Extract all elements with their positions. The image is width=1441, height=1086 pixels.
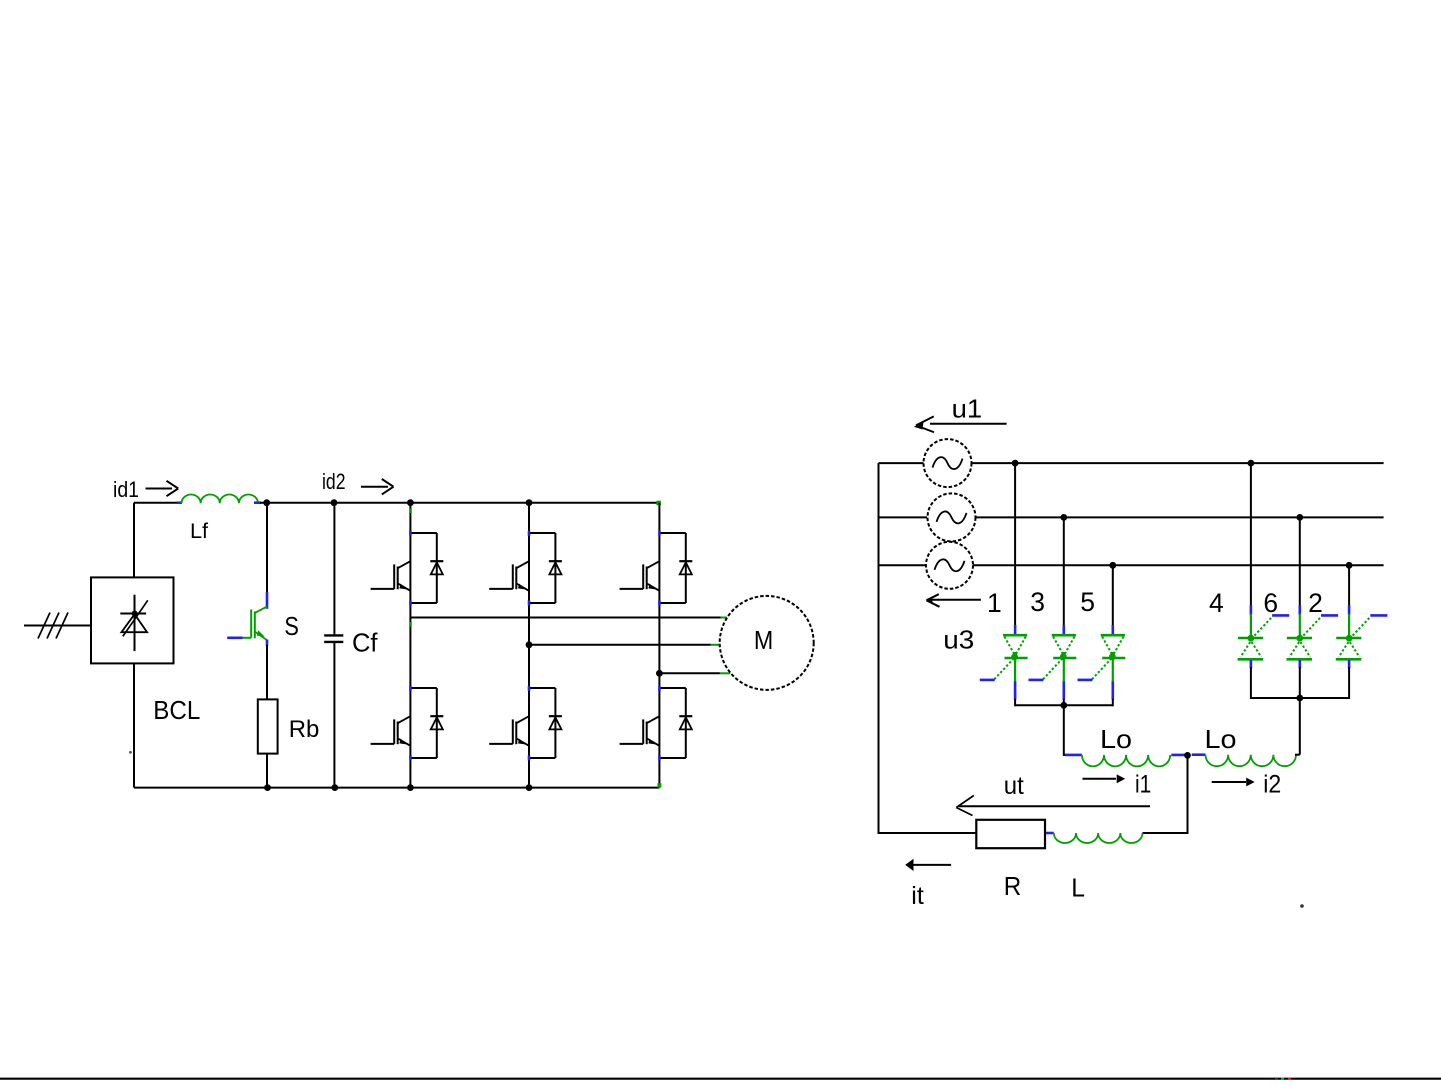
arrow id2	[361, 479, 394, 494]
junction dot bottom rail at leg2	[526, 784, 533, 791]
junction dot line c T2	[1346, 562, 1353, 569]
label 2	[1308, 588, 1323, 618]
green mark leg1 output	[409, 622, 412, 627]
AC source uc	[926, 542, 973, 589]
wire phase a left stub	[879, 462, 924, 464]
wire phase W to motor	[659, 672, 730, 674]
inverter leg 1 vertical wire	[409, 503, 411, 788]
IGBT Q3L lower with antiparallel diode	[620, 686, 693, 761]
inverter leg 3 vertical wire	[658, 503, 660, 788]
junction dot bus2	[1296, 695, 1303, 702]
wire phase line b	[976, 516, 1384, 518]
wire bus of 4-6-2	[1251, 697, 1349, 699]
label u1	[952, 394, 983, 424]
resistor R box	[976, 820, 1045, 848]
label BCL	[153, 695, 200, 725]
capacitor Cf	[324, 503, 343, 788]
thyristor 6	[1287, 517, 1339, 699]
junction dot line b T3	[1060, 514, 1067, 521]
wire bus1 down to Lo	[1064, 705, 1066, 756]
inductor Lo left	[1065, 755, 1188, 767]
wire phase b left stub	[879, 516, 928, 518]
svg-text:6: 6	[1263, 588, 1278, 618]
rectifier block BCL box	[91, 577, 174, 663]
junction dot top rail at leg1	[407, 499, 414, 506]
junction dot center tap	[1184, 752, 1191, 759]
wire AC input line to BCL	[24, 625, 91, 627]
bottom border line	[0, 1078, 1441, 1080]
green tick leg1 top	[409, 509, 412, 514]
IGBT Q3H upper with antiparallel diode	[620, 531, 693, 606]
junction dot leg2 output	[526, 641, 533, 648]
wire phase line a	[972, 462, 1384, 464]
svg-text:2: 2	[1308, 588, 1323, 618]
junction dot bottom rail at Cf	[331, 784, 338, 791]
wire top rail left segment	[134, 502, 182, 504]
svg-text:Cf: Cf	[352, 628, 378, 658]
svg-text:id2: id2	[322, 469, 346, 494]
junction dot leg3 output	[656, 670, 663, 677]
thyristor 3	[1029, 517, 1077, 706]
junction dot top rail at S branch	[263, 499, 270, 506]
IGBT Q1L lower with antiparallel diode	[371, 686, 444, 761]
label 6	[1263, 588, 1278, 618]
inductor Lo right	[1192, 755, 1296, 767]
svg-text:u3: u3	[943, 625, 974, 655]
IGBT Q2L lower with antiparallel diode	[489, 686, 562, 761]
svg-text:M: M	[754, 625, 773, 655]
label ut	[1004, 772, 1024, 800]
junction dot line a T4	[1248, 460, 1255, 467]
label it	[911, 882, 924, 910]
neutral vertical wire	[878, 463, 880, 833]
inductor L	[1045, 833, 1143, 843]
label 4	[1209, 588, 1224, 618]
stray dot left	[129, 751, 132, 754]
IGBT Q1H upper with antiparallel diode	[371, 531, 444, 606]
thyristor 1	[980, 463, 1028, 706]
junction dot top rail at leg2	[526, 499, 533, 506]
arrow id1	[146, 481, 179, 496]
svg-text:BCL: BCL	[153, 695, 200, 725]
label Cf	[352, 628, 378, 658]
label M	[754, 625, 773, 655]
label i2	[1263, 771, 1281, 799]
wire BCL top	[133, 503, 135, 578]
green end mark bottom rail	[657, 783, 661, 788]
tiny color marks on border	[1275, 1078, 1291, 1080]
label i1	[1135, 771, 1151, 799]
arrow u1	[914, 416, 1007, 432]
svg-text:Lo: Lo	[1100, 724, 1132, 754]
thyristor 4	[1238, 463, 1290, 699]
arrow ut	[956, 796, 1150, 816]
inductor Lf	[177, 495, 261, 504]
label Lf	[190, 520, 208, 543]
junction dot bottom rail at Rb	[264, 784, 271, 791]
motor M circle	[720, 596, 814, 690]
thyristor 2	[1336, 565, 1388, 699]
junction dot bottom rail at leg1	[407, 784, 414, 791]
arrow u3	[926, 594, 981, 607]
wire center tap down	[1187, 755, 1189, 833]
label id1	[113, 477, 139, 502]
label Lo left	[1100, 724, 1132, 754]
label 3	[1030, 587, 1045, 617]
label u3	[943, 625, 974, 655]
svg-text:Rb: Rb	[289, 716, 320, 743]
wire top rail	[260, 502, 659, 504]
arrow i2	[1212, 778, 1255, 787]
wire phase V to motor	[529, 644, 720, 646]
resistor Rb	[258, 699, 278, 753]
AC source ub	[928, 493, 976, 541]
arrow i1	[1083, 774, 1126, 783]
AC source ua	[924, 439, 972, 487]
svg-text:i2: i2	[1263, 771, 1281, 799]
wire Rb to bottom rail	[266, 754, 268, 788]
IGBT Q2H upper with antiparallel diode	[489, 531, 562, 606]
svg-text:u1: u1	[952, 394, 983, 424]
wire BCL bottom	[133, 663, 135, 787]
svg-text:S: S	[284, 611, 299, 641]
label Rb	[289, 716, 320, 743]
stray dot bottom right	[1300, 904, 1304, 908]
svg-text:id1: id1	[113, 477, 139, 502]
wire phase U to motor	[410, 617, 726, 619]
svg-text:R: R	[1004, 871, 1022, 901]
junction dot line b T6	[1296, 514, 1303, 521]
switch S green IGBT	[227, 503, 267, 700]
junction dot bus1	[1060, 702, 1067, 709]
label S	[284, 611, 299, 641]
wire neutral to R	[878, 832, 977, 834]
svg-text:1: 1	[987, 588, 1002, 618]
inverter leg 2 vertical wire	[528, 503, 530, 788]
thyristor 5	[1078, 565, 1126, 706]
label 1	[987, 588, 1002, 618]
svg-text:Lo: Lo	[1205, 724, 1237, 754]
junction dot line a T1	[1012, 460, 1019, 467]
label 5	[1080, 587, 1095, 617]
svg-text:3: 3	[1030, 587, 1045, 617]
thyristor symbol inside BCL	[120, 595, 148, 651]
wire phase c left stub	[879, 564, 927, 566]
svg-text:5: 5	[1080, 587, 1095, 617]
svg-text:it: it	[911, 882, 924, 910]
label Lo right	[1205, 724, 1237, 754]
svg-text:ut: ut	[1004, 772, 1024, 800]
junction dot line c T5	[1109, 562, 1116, 569]
svg-text:Lf: Lf	[190, 520, 208, 543]
svg-text:i1: i1	[1135, 771, 1151, 799]
svg-text:L: L	[1071, 872, 1085, 902]
label id2	[322, 469, 346, 494]
svg-text:4: 4	[1209, 588, 1224, 618]
wire phase line c	[973, 564, 1384, 566]
AC input 3-phase slash marks	[38, 613, 68, 639]
label L	[1071, 872, 1085, 902]
wire Lo right up to bus2	[1295, 697, 1300, 755]
wire bus of 1-3-5	[1015, 704, 1113, 706]
label R	[1004, 871, 1022, 901]
wire L to tap	[1143, 832, 1189, 834]
arrow it	[905, 859, 951, 871]
green end mark top rail	[656, 501, 661, 506]
wire bottom rail	[134, 787, 659, 789]
junction dot top rail at Cf branch	[331, 499, 338, 506]
